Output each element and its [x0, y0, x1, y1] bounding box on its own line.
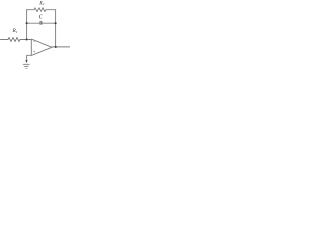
svg-text:C: C: [39, 14, 43, 20]
svg-text:R1: R1: [12, 28, 18, 34]
svg-text:R2: R2: [38, 0, 44, 6]
